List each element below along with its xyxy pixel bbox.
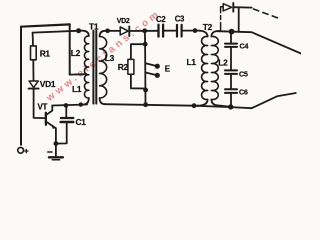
svg-text:T1: T1 bbox=[89, 21, 99, 31]
svg-text:VD1: VD1 bbox=[40, 79, 56, 89]
svg-text:C6: C6 bbox=[239, 88, 248, 97]
svg-text:E: E bbox=[165, 65, 171, 74]
svg-text:L2: L2 bbox=[71, 48, 81, 58]
svg-text:R1: R1 bbox=[40, 49, 51, 59]
svg-text:C5: C5 bbox=[239, 69, 248, 78]
svg-text:C3: C3 bbox=[175, 14, 185, 23]
svg-text:L3: L3 bbox=[105, 53, 115, 63]
svg-text:L1: L1 bbox=[187, 57, 197, 67]
svg-text:C2: C2 bbox=[156, 15, 166, 24]
svg-text:R2: R2 bbox=[118, 62, 129, 72]
svg-text:T2: T2 bbox=[203, 22, 213, 32]
svg-text:L2: L2 bbox=[218, 58, 228, 68]
svg-text:VT: VT bbox=[38, 103, 48, 112]
svg-text:C1: C1 bbox=[76, 117, 87, 127]
svg-text:L1: L1 bbox=[72, 84, 82, 94]
svg-text:C4: C4 bbox=[240, 42, 249, 51]
svg-text:VD2: VD2 bbox=[117, 18, 130, 25]
